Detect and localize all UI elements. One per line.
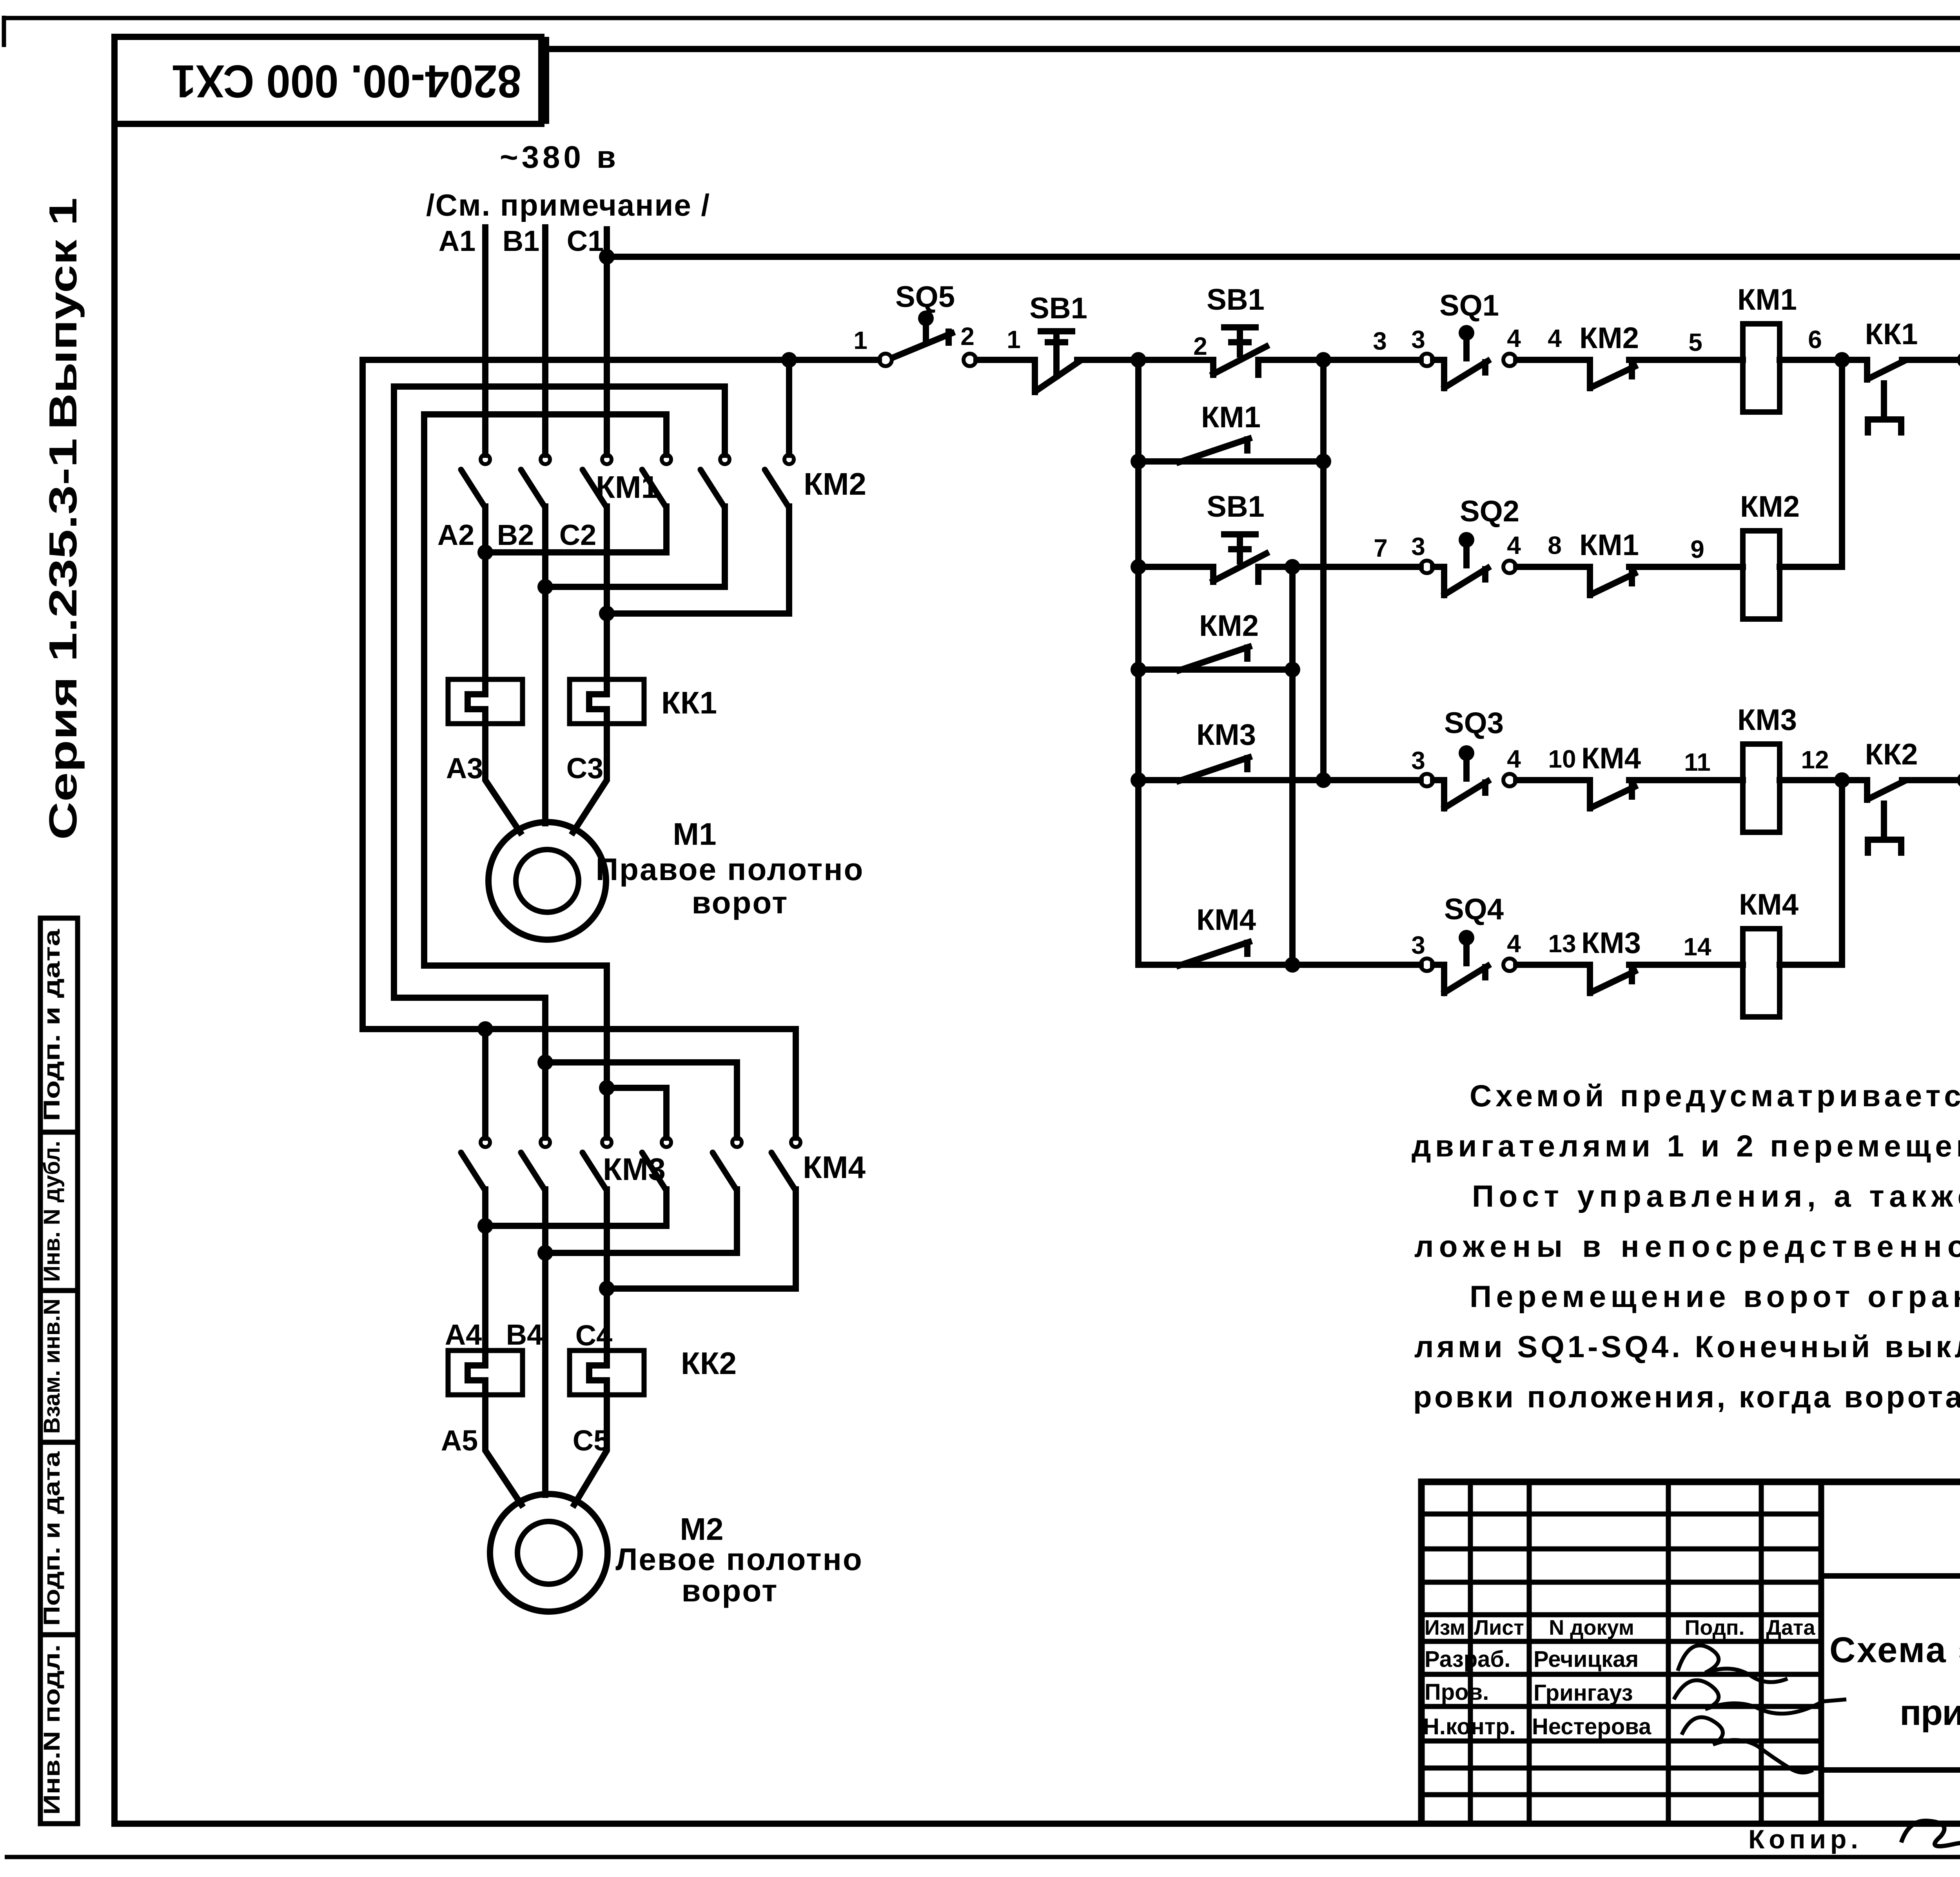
svg-text:КМ4: КМ4 bbox=[803, 1150, 866, 1185]
left margin box divider 1 bbox=[40, 1130, 78, 1135]
svg-text:КК2: КК2 bbox=[1865, 738, 1918, 771]
contactor KM3 pole 1 bbox=[461, 1138, 490, 1189]
node bus2 rung1 bbox=[1316, 352, 1331, 368]
contact KM4 NC (rung3) bbox=[1590, 780, 1635, 808]
thermal contact KK1 bbox=[1867, 360, 1904, 432]
svg-text:10: 10 bbox=[1548, 745, 1576, 773]
svg-text:6: 6 bbox=[1808, 325, 1822, 354]
wire rung2 SQ2 to KM1 contact bbox=[1516, 564, 1590, 570]
svg-text:SQ4: SQ4 bbox=[1444, 893, 1504, 926]
svg-text:КК1: КК1 bbox=[1865, 318, 1918, 351]
top-left stamp box double edge bbox=[544, 37, 549, 124]
contact KM2 NO aux bbox=[1179, 647, 1249, 670]
wire C4 column bbox=[604, 1189, 610, 1351]
wire rung3 to SQ3 bbox=[1323, 777, 1421, 783]
wire bus3 vertical bbox=[1289, 567, 1296, 965]
wire KM2 pole2 feed vertical bbox=[786, 360, 792, 455]
svg-text:Разраб.: Разраб. bbox=[1425, 1646, 1510, 1672]
node C4 link bbox=[599, 1281, 615, 1296]
wire KM3 pole4 link to A4 bbox=[485, 1189, 666, 1226]
svg-text:КМ2: КМ2 bbox=[1579, 321, 1639, 355]
wire KM4 pole2 link to C4 bbox=[607, 1189, 796, 1289]
svg-text:Взам. инв.N: Взам. инв.N bbox=[39, 1299, 65, 1434]
svg-text:Правое полотно: Правое полотно bbox=[596, 852, 864, 887]
title block outer border bbox=[1421, 1482, 1960, 1824]
node B4 link bbox=[537, 1245, 553, 1261]
left margin box divider 3 bbox=[40, 1440, 78, 1445]
limit switch SQ3 bbox=[1421, 745, 1516, 808]
svg-text:Перемещение ворот ограничено к: Перемещение ворот ограничено конечными в… bbox=[1470, 1279, 1960, 1314]
svg-text:SB1: SB1 bbox=[1029, 292, 1087, 325]
svg-text:ворот: ворот bbox=[692, 885, 789, 920]
svg-text:2: 2 bbox=[960, 322, 975, 350]
wire B2 column bbox=[542, 506, 548, 823]
svg-text:ворот: ворот bbox=[682, 1573, 779, 1608]
svg-text:Схемой предусматривается местн: Схемой предусматривается местное управле… bbox=[1470, 1078, 1960, 1113]
wire rung3 coil to KK2 bbox=[1780, 777, 1867, 783]
wire C2 column bbox=[604, 506, 610, 679]
svg-text:Изм: Изм bbox=[1425, 1616, 1465, 1639]
svg-text:КМ2: КМ2 bbox=[1740, 490, 1800, 523]
svg-text:11: 11 bbox=[1684, 748, 1711, 776]
wire lower feed line 1 (to KM3 pole1 / KM4 pole2) bbox=[363, 1029, 796, 1138]
svg-text:Нестерова: Нестерова bbox=[1532, 1714, 1651, 1739]
svg-text:Серия 1.235.3-1: Серия 1.235.3-1 bbox=[41, 438, 85, 840]
svg-text:Дата: Дата bbox=[1766, 1616, 1816, 1639]
svg-text:SB1: SB1 bbox=[1207, 490, 1265, 523]
svg-text:КМ1: КМ1 bbox=[596, 470, 659, 505]
node KM2 aux left bbox=[1131, 662, 1146, 677]
wire KM1 pole4 link to A2 bbox=[485, 506, 666, 552]
svg-text:КК1: КК1 bbox=[661, 685, 717, 720]
pushbutton SB1 start (rung2) bbox=[1213, 534, 1266, 582]
node KM1 aux left bbox=[1131, 454, 1146, 469]
svg-text:Копир.: Копир. bbox=[1748, 1824, 1858, 1854]
svg-text:2: 2 bbox=[1193, 332, 1207, 360]
revision row j bbox=[1421, 1792, 1821, 1797]
node rung1 KM2 coil return bbox=[1834, 352, 1850, 368]
thermal contact KK2 bbox=[1867, 780, 1904, 853]
document number cell divider bbox=[1821, 1573, 1960, 1579]
node right bus rung1 bbox=[1957, 352, 1960, 368]
svg-text:КМ3: КМ3 bbox=[1196, 718, 1256, 752]
svg-text:Подп. и дата: Подп. и дата bbox=[39, 1451, 65, 1626]
svg-text:КМ1: КМ1 bbox=[1579, 528, 1639, 562]
node A4 link bbox=[477, 1218, 493, 1234]
wire rung1 SB1 to left bus bbox=[1077, 357, 1211, 363]
node bus3 rung2 bbox=[1285, 559, 1300, 575]
contactor KM3 pole 3 bbox=[583, 1138, 612, 1189]
svg-text:Выпуск 1: Выпуск 1 bbox=[41, 198, 85, 430]
svg-text:КМ2: КМ2 bbox=[1199, 609, 1259, 643]
wire left feed vertical 2 bbox=[391, 387, 397, 998]
svg-text:4: 4 bbox=[1507, 745, 1521, 773]
svg-text:КК2: КК2 bbox=[681, 1346, 737, 1381]
wire rung4 coil to return riser bbox=[1780, 962, 1842, 968]
limit switch SQ2 bbox=[1421, 532, 1516, 595]
top-left stamp box bbox=[114, 37, 541, 124]
wire rung4 to SQ4 bbox=[1292, 962, 1421, 968]
svg-text:С4: С4 bbox=[575, 1319, 613, 1352]
wire drop to KM3 pole3 bbox=[604, 1088, 610, 1138]
wire rung2 coil to return riser bbox=[1780, 564, 1842, 570]
coil KM4 bbox=[1743, 929, 1780, 1017]
svg-text:4: 4 bbox=[1548, 324, 1562, 352]
svg-text:/См. примечание /: /См. примечание / bbox=[426, 188, 710, 222]
svg-text:Левое полотно: Левое полотно bbox=[615, 1542, 863, 1577]
title block main divider bbox=[1818, 1482, 1824, 1824]
wire KM2 pole2 link to C2 bbox=[607, 506, 789, 614]
node lower feed C bbox=[599, 1080, 615, 1096]
wire rung3 to coil KM3 bbox=[1629, 777, 1743, 783]
svg-text:N докум: N докум bbox=[1549, 1616, 1634, 1639]
svg-text:КМ4: КМ4 bbox=[1196, 903, 1256, 937]
revision column line 3 bbox=[1666, 1482, 1671, 1824]
wire KM4 pole1 link to B4 bbox=[545, 1189, 737, 1253]
svg-text:Лист: Лист bbox=[1474, 1616, 1524, 1639]
svg-text:Схема электрическая: Схема электрическая bbox=[1829, 1630, 1960, 1670]
contact KM3 NO aux bbox=[1179, 757, 1249, 781]
svg-text:А1: А1 bbox=[439, 225, 476, 257]
revision row b bbox=[1421, 1547, 1821, 1552]
contactor KM3 pole 4 bbox=[642, 1138, 671, 1189]
wire rung1 KK1 to right bus bbox=[1902, 357, 1960, 363]
node B2 link bbox=[537, 579, 553, 595]
svg-text:принципиальная: принципиальная bbox=[1900, 1693, 1960, 1733]
motor M2 bbox=[490, 1494, 608, 1612]
wire KM2 pole1 link to B2 bbox=[545, 506, 725, 587]
wire lower feed line 3 (to KM3 poles 3-4) bbox=[424, 966, 607, 1088]
svg-text:3: 3 bbox=[1411, 532, 1425, 561]
wire KM1 aux rung bbox=[1138, 458, 1323, 465]
svg-text:3: 3 bbox=[1411, 931, 1425, 959]
wire C5 to motor M2 bbox=[574, 1395, 607, 1505]
outer left corner nub bbox=[2, 16, 6, 47]
svg-text:М2: М2 bbox=[680, 1512, 723, 1547]
node lower feed B bbox=[537, 1055, 553, 1070]
wire A5 to motor M2 bbox=[485, 1395, 521, 1505]
coil KM1 bbox=[1743, 324, 1780, 412]
revision column line 2 bbox=[1527, 1482, 1532, 1824]
wire rung4 SQ4 to KM3 contact bbox=[1516, 962, 1590, 968]
contact KM3 NC (rung4) bbox=[1590, 965, 1635, 993]
wire left feed vertical 3 bbox=[421, 414, 427, 966]
wire rung1 coil to KK1 bbox=[1780, 357, 1867, 363]
wire drop to KM3 pole1 bbox=[482, 1029, 488, 1138]
contact KM2 NC (rung1) bbox=[1590, 360, 1635, 388]
svg-text:лями SQ1-SQ4. Конечный выключа: лями SQ1-SQ4. Конечный выключатель SQ5 с… bbox=[1414, 1329, 1960, 1364]
svg-text:1: 1 bbox=[853, 326, 867, 354]
signature scribble 2 bbox=[1674, 1680, 1846, 1714]
svg-text:SQ5: SQ5 bbox=[895, 280, 955, 314]
svg-text:А3: А3 bbox=[446, 752, 483, 784]
node rung3 left bus bbox=[1131, 772, 1146, 788]
svg-text:9: 9 bbox=[1690, 535, 1704, 563]
left margin box divider 2 bbox=[40, 1288, 78, 1293]
revision row i bbox=[1421, 1766, 1821, 1771]
svg-text:Подп. и дата: Подп. и дата bbox=[39, 929, 65, 1121]
svg-text:4: 4 bbox=[1507, 531, 1521, 559]
svg-text:В2: В2 bbox=[497, 519, 534, 551]
wire control rung 1 left segment bbox=[363, 357, 879, 363]
svg-text:КМ3: КМ3 bbox=[603, 1152, 666, 1187]
wire rung4 to coil KM4 bbox=[1629, 962, 1743, 968]
svg-text:КМ1: КМ1 bbox=[1737, 283, 1797, 316]
node right bus rung3 bbox=[1957, 772, 1960, 788]
wire rung1 SQ5 to SB1 bbox=[976, 357, 1035, 363]
svg-text:ложены в непосредственной близ: ложены в непосредственной близости от во… bbox=[1414, 1229, 1960, 1263]
left margin stamp boxes column bbox=[40, 918, 78, 1824]
wire rung1 to coil KM1 bbox=[1629, 357, 1743, 363]
thermal element KK2 phase A bbox=[448, 1351, 523, 1395]
node C2 link bbox=[599, 606, 615, 621]
wire C3 to motor M1 bbox=[573, 724, 607, 832]
wire bus2 vertical bbox=[1320, 360, 1327, 780]
svg-text:В1: В1 bbox=[503, 225, 540, 257]
wire phase A1 vertical bbox=[482, 227, 488, 455]
limit switch SQ1 bbox=[1421, 325, 1516, 388]
svg-text:Подп.: Подп. bbox=[1685, 1616, 1745, 1639]
contact KM4 NO aux bbox=[1179, 942, 1249, 966]
svg-text:14: 14 bbox=[1683, 933, 1711, 961]
contact KM1 NO aux bbox=[1179, 439, 1249, 462]
svg-text:А5: А5 bbox=[441, 1424, 478, 1457]
wire return riser rung4 bbox=[1839, 780, 1845, 965]
wire rung2 from left bus bbox=[1138, 564, 1211, 570]
svg-text:С2: С2 bbox=[559, 519, 597, 551]
wire lower feed line 2 (to KM3 pole2 / KM4 pole1) bbox=[394, 998, 545, 1062]
contactor KM1 pole A bbox=[461, 455, 490, 506]
revision column line 1 bbox=[1468, 1482, 1473, 1824]
wire rung3 KM3 aux segment bbox=[1138, 777, 1323, 783]
wire phase C1 vertical bbox=[604, 229, 610, 455]
svg-text:4: 4 bbox=[1507, 929, 1521, 958]
svg-text:ровки положения, когда ворота: ровки положения, когда ворота заперты. bbox=[1413, 1380, 1960, 1414]
wire bracket to KM1 pole4 bbox=[424, 414, 666, 455]
svg-text:13: 13 bbox=[1548, 929, 1576, 958]
svg-text:Пост управления, а также магни: Пост управления, а также магнитные пуска… bbox=[1472, 1179, 1960, 1213]
wire left feed vertical 1 bbox=[359, 360, 366, 1029]
footer signature scribble bbox=[1901, 1821, 1960, 1852]
node KM1 aux right bbox=[1316, 454, 1331, 469]
revision row h bbox=[1421, 1739, 1821, 1744]
node KM2 aux right bbox=[1285, 662, 1300, 677]
svg-text:КМ3: КМ3 bbox=[1737, 703, 1797, 737]
svg-text:3: 3 bbox=[1411, 746, 1425, 775]
wire B4 column bbox=[542, 1189, 548, 1495]
contactor KM2 pole 2 bbox=[765, 455, 794, 506]
svg-text:М1: М1 bbox=[673, 817, 716, 851]
svg-text:КМ1: КМ1 bbox=[1201, 401, 1261, 434]
svg-text:7: 7 bbox=[1374, 534, 1388, 562]
svg-text:Инв. N дубл.: Инв. N дубл. bbox=[39, 1141, 65, 1282]
contactor KM2 pole 1 bbox=[701, 455, 730, 506]
node rung2 left bus bbox=[1131, 559, 1146, 575]
svg-text:двигателями 1 и 2 перемещения: двигателями 1 и 2 перемещения распашных … bbox=[1412, 1129, 1960, 1163]
svg-text:SQ3: SQ3 bbox=[1444, 706, 1504, 740]
signature scribble 1 bbox=[1678, 1645, 1788, 1682]
pushbutton SB1 stop (rung1) bbox=[1035, 331, 1078, 392]
revision row f bbox=[1421, 1672, 1821, 1677]
wire link to KM4 pole1 bbox=[545, 1062, 737, 1138]
svg-text:С3: С3 bbox=[566, 752, 604, 784]
wire top supply rail bbox=[607, 254, 1960, 260]
svg-text:КМ3: КМ3 bbox=[1581, 926, 1641, 960]
wire link to KM3 pole4 bbox=[607, 1088, 666, 1138]
wire rung2 to coil KM2 bbox=[1629, 564, 1743, 570]
svg-text:5: 5 bbox=[1688, 328, 1702, 356]
wire rung1 SQ1 to KM2 contact bbox=[1516, 357, 1590, 363]
node rung1 to KM2 pole2 bbox=[781, 352, 797, 368]
svg-text:КМ4: КМ4 bbox=[1581, 742, 1641, 775]
contactor KM3 pole 2 bbox=[521, 1138, 550, 1189]
wire rung3 KK2 to right bus bbox=[1902, 777, 1960, 783]
wire drop to KM3 pole2 bbox=[542, 1062, 548, 1138]
wire phase B1 vertical bbox=[542, 227, 548, 455]
svg-text:В4: В4 bbox=[506, 1318, 543, 1351]
svg-text:4: 4 bbox=[1507, 324, 1521, 352]
svg-text:Речицкая: Речицкая bbox=[1534, 1646, 1639, 1672]
svg-text:SQ2: SQ2 bbox=[1460, 495, 1519, 528]
contact KM1 NC (rung2) bbox=[1590, 567, 1635, 595]
wire rung2 to SQ2 bbox=[1258, 564, 1421, 570]
svg-text:А4: А4 bbox=[445, 1318, 482, 1351]
svg-text:Н.контр.: Н.контр. bbox=[1423, 1714, 1516, 1739]
svg-text:3: 3 bbox=[1373, 327, 1387, 355]
svg-text:КМ2: КМ2 bbox=[804, 467, 866, 501]
thermal element KK1 phase C bbox=[570, 679, 644, 724]
svg-text:SB1: SB1 bbox=[1207, 283, 1265, 316]
coil KM3 bbox=[1743, 744, 1780, 832]
schema cell bottom line bbox=[1821, 1767, 1960, 1773]
limit switch SQ4 bbox=[1421, 930, 1516, 993]
node lower feed A bbox=[477, 1021, 493, 1037]
node left bus rung1 bbox=[1131, 352, 1146, 368]
limit switch SQ5 bbox=[879, 310, 976, 366]
wire A3 to motor M1 bbox=[485, 724, 520, 832]
left margin box divider 4 bbox=[40, 1632, 78, 1637]
svg-text:SQ1: SQ1 bbox=[1439, 289, 1499, 322]
wire A2 column bbox=[482, 506, 488, 679]
svg-text:А2: А2 bbox=[437, 519, 475, 551]
wire bracket to KM2 pole1 bbox=[394, 387, 725, 455]
signature scribble 3 bbox=[1682, 1717, 1813, 1773]
wire KM2 aux rung bbox=[1138, 666, 1292, 673]
revision row a bbox=[1421, 1512, 1821, 1517]
contactor KM4 pole 1 bbox=[713, 1138, 742, 1189]
svg-text:КМ4: КМ4 bbox=[1739, 888, 1798, 921]
wire left bus vertical bbox=[1135, 360, 1142, 965]
motor M1 bbox=[488, 822, 606, 940]
revision row d (header top) bbox=[1421, 1612, 1821, 1617]
revision column line 4 bbox=[1759, 1482, 1764, 1824]
svg-text:Инв.N подл.: Инв.N подл. bbox=[39, 1645, 65, 1815]
wire rung3 SQ3 to KM4 contact bbox=[1516, 777, 1590, 783]
pushbutton SB1 start (rung1) bbox=[1213, 327, 1266, 375]
contactor KM1 pole B bbox=[521, 455, 550, 506]
wire return riser rung2 bbox=[1839, 360, 1845, 567]
node A2 link bbox=[477, 545, 493, 560]
svg-text:8: 8 bbox=[1548, 531, 1562, 559]
wire rung4 KM4 aux segment bbox=[1138, 962, 1292, 968]
contactor KM1 pole C bbox=[583, 455, 612, 506]
revision row e (header bottom) bbox=[1421, 1639, 1821, 1644]
svg-text:3: 3 bbox=[1411, 325, 1425, 354]
node rung3 KM4 coil return bbox=[1834, 772, 1850, 788]
thermal element KK1 phase A bbox=[448, 679, 523, 724]
coil KM2 bbox=[1743, 531, 1780, 619]
outer top border line bbox=[3, 16, 1960, 20]
svg-text:~380 в: ~380 в bbox=[500, 140, 616, 174]
outer bottom border line bbox=[5, 1855, 1960, 1859]
contactor KM1 pole 4 bbox=[642, 455, 671, 506]
node C1 top rail junction bbox=[599, 249, 615, 265]
svg-text:12: 12 bbox=[1801, 746, 1829, 774]
node rung4 bus3 bbox=[1285, 957, 1300, 973]
contactor KM4 pole 2 bbox=[771, 1138, 800, 1189]
svg-text:Грингауз: Грингауз bbox=[1534, 1680, 1633, 1706]
svg-text:Пров.: Пров. bbox=[1425, 1679, 1489, 1705]
revision row c bbox=[1421, 1580, 1821, 1585]
thermal element KK2 phase C bbox=[570, 1351, 644, 1395]
svg-text:1: 1 bbox=[1007, 325, 1021, 354]
svg-text:С1: С1 bbox=[567, 225, 604, 257]
wire rung1 start to SQ1 bbox=[1258, 357, 1421, 363]
svg-text:8204-00. 000 СХ1: 8204-00. 000 СХ1 bbox=[172, 55, 521, 107]
node rung3 bus2 bbox=[1316, 772, 1331, 788]
revision row g bbox=[1421, 1704, 1821, 1709]
wire A4 column bbox=[482, 1189, 488, 1351]
